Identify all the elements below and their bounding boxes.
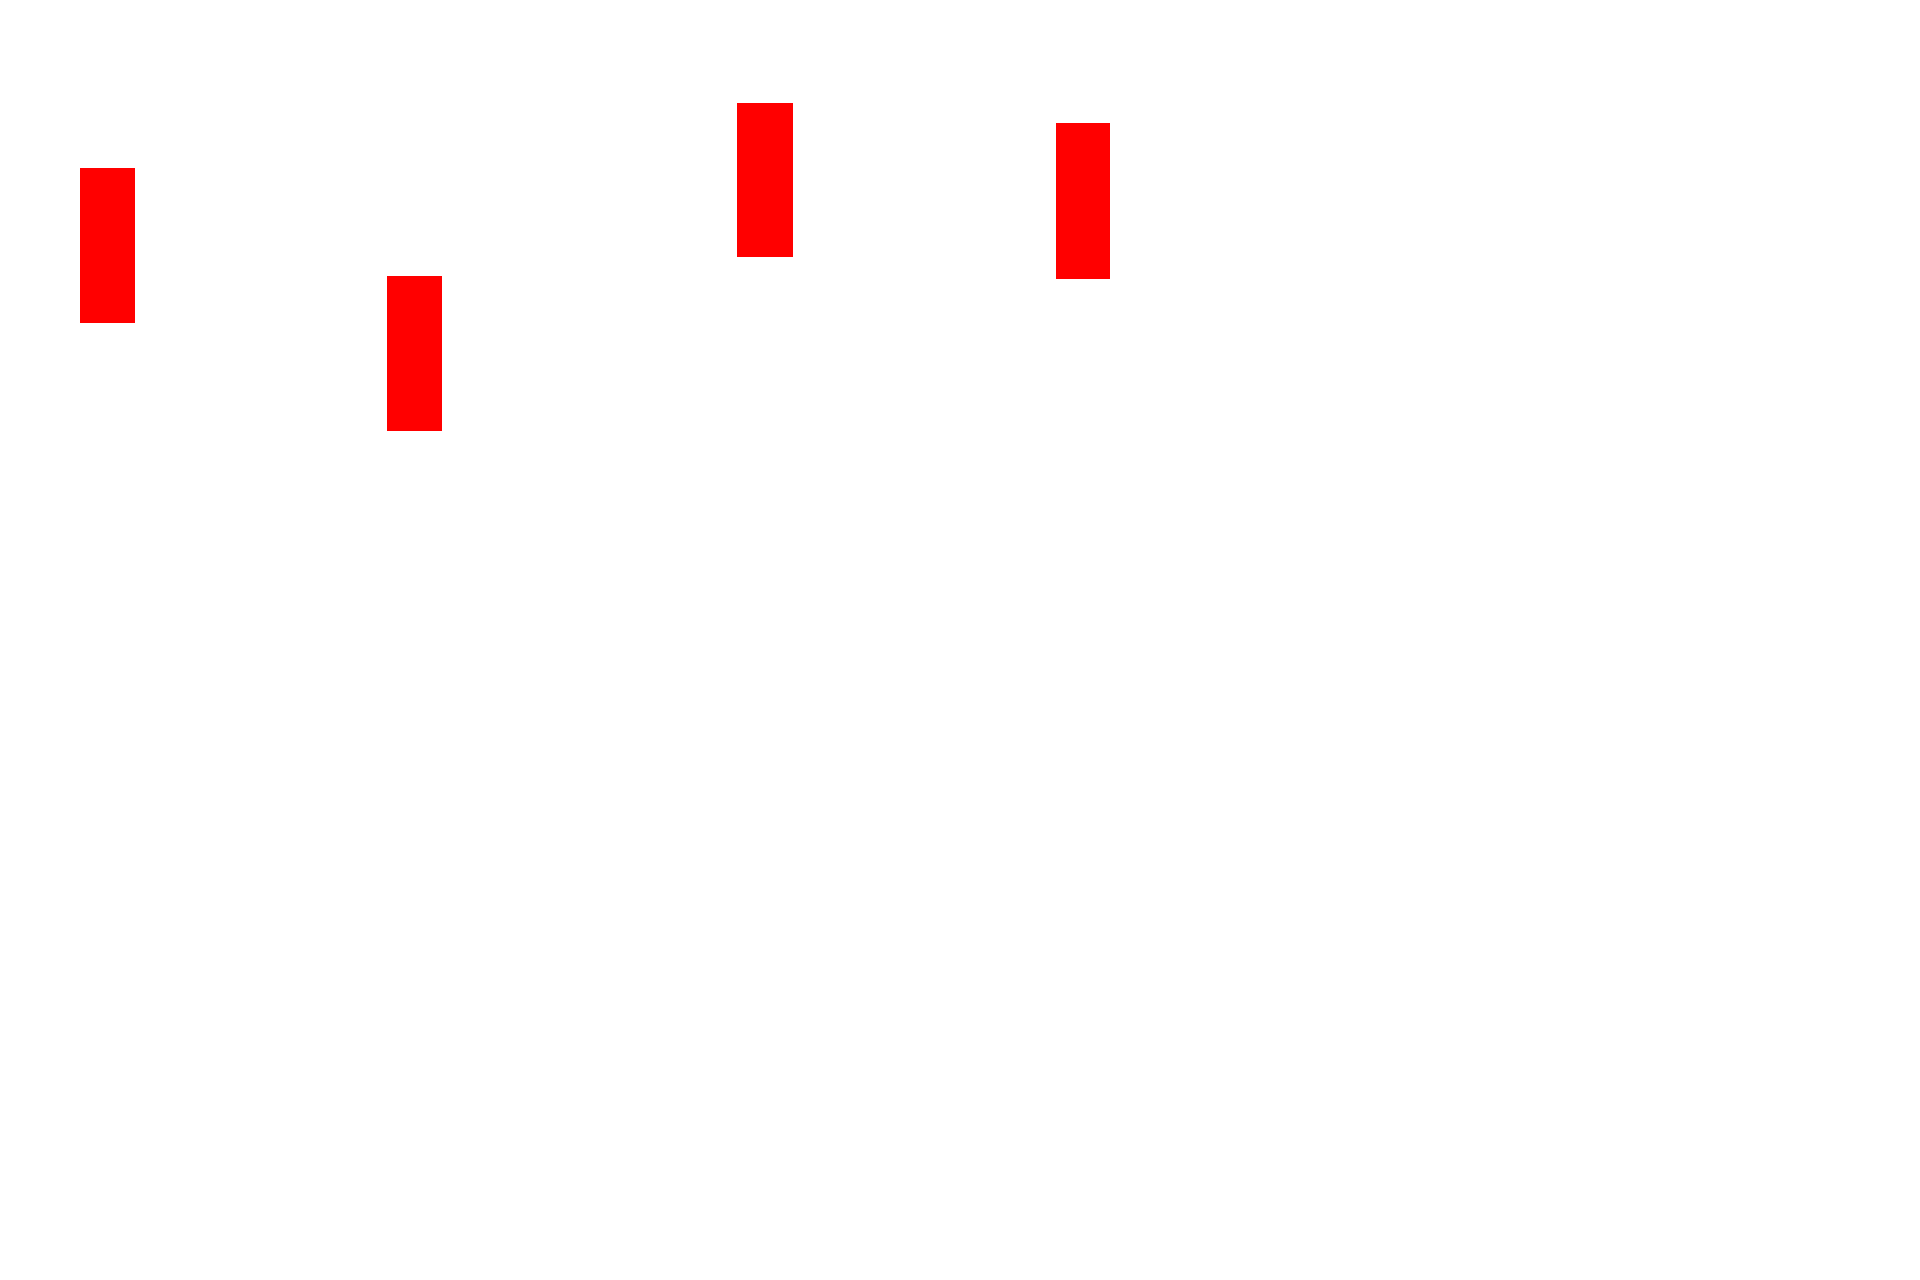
red bar 1 <box>80 168 135 323</box>
red bar 3 <box>737 103 793 257</box>
red bar 4 <box>1056 123 1110 279</box>
red bar 2 <box>387 276 442 431</box>
